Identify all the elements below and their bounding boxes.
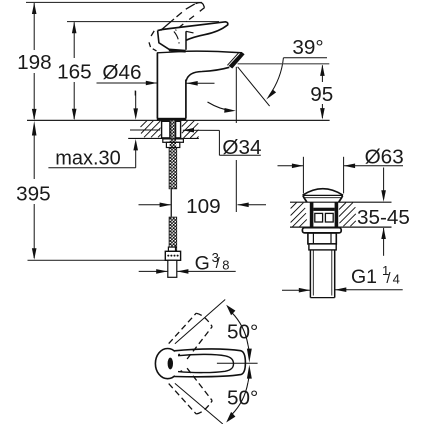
lever hub xyxy=(158,31,170,50)
dim G1 1/4 xyxy=(282,287,403,292)
svg-text:39°: 39° xyxy=(292,36,323,59)
dashed handle rotated down 50 deg xyxy=(169,368,213,414)
svg-text:4: 4 xyxy=(393,272,400,287)
G_TOPLEFT_FAUCET xyxy=(26,2,330,260)
handle axis centerline xyxy=(217,362,258,364)
drain cap dome xyxy=(303,189,343,202)
counter hatch right of faucet shank xyxy=(182,121,199,138)
spout face extension line xyxy=(238,67,270,106)
spout vertical extension xyxy=(235,67,237,123)
dim 165 xyxy=(72,22,77,120)
svg-text:109: 109 xyxy=(186,195,221,218)
faucet body base band xyxy=(157,118,187,121)
drain locknut xyxy=(308,233,336,244)
deck top line xyxy=(27,119,330,121)
drain threaded tailpiece xyxy=(310,250,334,298)
mounting sleeve left xyxy=(162,121,170,138)
svg-text:G: G xyxy=(195,252,210,274)
handle knob circle xyxy=(155,349,179,379)
svg-text:50°: 50° xyxy=(227,321,258,344)
cartridge dome band xyxy=(169,50,186,51)
hose end fitting xyxy=(168,247,175,251)
drain deck hatch left xyxy=(291,203,307,227)
spout underside xyxy=(186,67,229,80)
drain deck top line xyxy=(290,201,392,203)
ref line hose end xyxy=(28,259,166,261)
drain washer band xyxy=(309,244,336,250)
lever handle (closed position) xyxy=(158,22,228,50)
handle axis upper 50 deg xyxy=(175,300,225,344)
drain flange below deck xyxy=(302,228,341,233)
counter hatch left of faucet shank xyxy=(141,121,161,138)
dim 198 xyxy=(32,3,37,121)
svg-text:395: 395 xyxy=(16,182,51,205)
shank washer below deck xyxy=(163,139,184,142)
svg-text:Ø63: Ø63 xyxy=(365,146,404,169)
svg-text:95: 95 xyxy=(310,83,333,106)
drain body in deck xyxy=(310,202,338,227)
lever handle raised position (dashed) xyxy=(149,3,205,51)
hose break centerline xyxy=(170,189,172,217)
handle inner top face xyxy=(178,354,234,372)
svg-text:165: 165 xyxy=(57,60,92,83)
deck bottom line xyxy=(128,137,199,139)
raised hub dashes xyxy=(150,31,154,37)
spout end face band xyxy=(229,52,245,69)
dashed handle rotated up 50 deg xyxy=(169,313,213,359)
faucet threaded stud and braided hose upper segment xyxy=(170,121,177,148)
spout top edge xyxy=(186,51,241,53)
svg-text:198: 198 xyxy=(17,51,52,74)
mounting sleeve right xyxy=(176,121,181,138)
handle axis lower 50 deg xyxy=(175,383,223,424)
braided hose lower segment xyxy=(169,217,177,251)
dim 395 xyxy=(32,121,37,260)
svg-text:8: 8 xyxy=(222,257,229,272)
faucet body xyxy=(157,50,187,121)
svg-text:G1: G1 xyxy=(351,266,377,288)
swivel arc arrow under spout xyxy=(208,102,232,111)
spout outlet ref line xyxy=(238,63,330,65)
svg-text:35-45: 35-45 xyxy=(357,206,410,229)
hub crease xyxy=(174,32,179,44)
svg-text:max.30: max.30 xyxy=(55,148,121,170)
shank nut xyxy=(166,142,179,147)
handle indicator slot xyxy=(168,358,173,370)
ref line 198 top xyxy=(26,1,202,3)
G3/8 thread stub xyxy=(168,260,177,277)
spout xyxy=(186,51,244,80)
ref line 165 top xyxy=(67,21,219,23)
svg-text:Ø46: Ø46 xyxy=(102,61,141,84)
drain deck bottom line xyxy=(290,226,392,228)
drain deck hatch right xyxy=(339,203,356,227)
dim G3/8 xyxy=(139,269,236,274)
handle body top view xyxy=(175,349,246,377)
